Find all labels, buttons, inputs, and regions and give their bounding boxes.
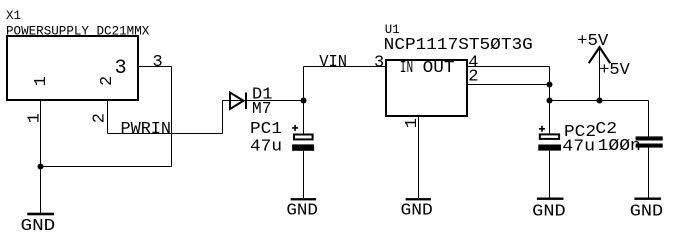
svg-text:PC1: PC1 bbox=[250, 120, 282, 139]
svg-text:2: 2 bbox=[91, 113, 110, 123]
svg-text:GND: GND bbox=[21, 217, 56, 236]
svg-text:IN: IN bbox=[400, 59, 413, 78]
svg-text:47u: 47u bbox=[562, 137, 595, 156]
svg-text:3: 3 bbox=[153, 53, 163, 72]
svg-text:VIN: VIN bbox=[319, 53, 347, 72]
svg-text:2: 2 bbox=[468, 68, 478, 87]
svg-text:47u: 47u bbox=[250, 137, 282, 156]
svg-text:GND: GND bbox=[401, 202, 433, 221]
svg-text:GND: GND bbox=[286, 202, 318, 221]
svg-text:M7: M7 bbox=[252, 100, 271, 119]
svg-text:OUT: OUT bbox=[423, 59, 455, 78]
svg-text:X1: X1 bbox=[6, 8, 21, 23]
svg-text:GND: GND bbox=[532, 203, 565, 222]
svg-text:+5V: +5V bbox=[599, 61, 630, 80]
svg-text:3: 3 bbox=[374, 53, 384, 72]
svg-text:+5V: +5V bbox=[577, 32, 609, 51]
svg-text:NCP1117ST5ØT3G: NCP1117ST5ØT3G bbox=[384, 36, 533, 55]
svg-text:1: 1 bbox=[403, 118, 422, 128]
svg-text:1: 1 bbox=[26, 113, 45, 123]
svg-text:1ØØn: 1ØØn bbox=[598, 137, 641, 156]
svg-text:POWERSUPPLY_DC21MMX: POWERSUPPLY_DC21MMX bbox=[6, 24, 149, 39]
svg-text:1: 1 bbox=[32, 76, 51, 86]
svg-text:PWRIN: PWRIN bbox=[121, 120, 172, 139]
svg-text:U1: U1 bbox=[385, 22, 400, 37]
svg-text:GND: GND bbox=[630, 203, 663, 222]
svg-text:2: 2 bbox=[98, 76, 117, 86]
